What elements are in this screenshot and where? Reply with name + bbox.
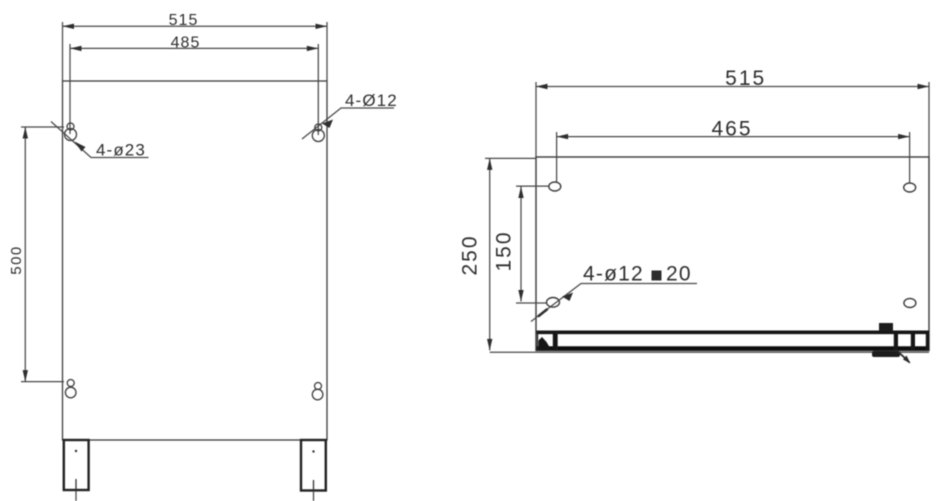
leader dark segment below hole [538, 309, 548, 317]
dimension 485 (left view) [70, 44, 318, 135]
dimension 515 (right view) [536, 82, 929, 157]
dimension 500 (left view, vertical) [21, 127, 64, 382]
rail bottom bar [537, 346, 930, 350]
hole top-left (right view) [549, 182, 561, 191]
rail right diagonal tick [898, 351, 910, 363]
arrowheads 250 [487, 158, 492, 170]
plate outline [536, 157, 929, 351]
hole top-right (right view) [904, 183, 916, 192]
arrowhead leader 4-o12 [322, 120, 333, 129]
rail right tick arrowhead [903, 356, 911, 364]
dimension 515 (left view) [63, 22, 328, 81]
leader 4-o23 [51, 122, 149, 158]
dimension 250 (right view, vertical) [485, 158, 929, 352]
rail left clip blob [539, 337, 551, 350]
svg-text:20: 20 [666, 263, 692, 286]
keyhole slot bottom-right [312, 383, 323, 400]
rail right end cap [926, 331, 929, 350]
leader 4-o12x20 [531, 284, 697, 322]
foot right [301, 440, 326, 491]
hole bottom-right (right view) [904, 299, 916, 308]
rail right divider 1 [894, 331, 898, 350]
dimension 150 (right view, vertical) [516, 186, 549, 303]
foot left [64, 440, 89, 490]
svg-text:515: 515 [725, 67, 766, 90]
leader 4-o12 [302, 108, 394, 139]
arrowhead leader 4-o23 [75, 142, 86, 152]
svg-text:515: 515 [169, 12, 199, 29]
svg-text:150: 150 [493, 230, 516, 271]
arrowhead leader 4-o12x20 [562, 293, 573, 302]
svg-text:4-ø23: 4-ø23 [96, 141, 146, 160]
rail right divider 2 [911, 331, 915, 350]
svg-text:250: 250 [459, 234, 482, 275]
foot centerline left [75, 491, 77, 501]
keyhole slot top-left [65, 123, 77, 141]
panel outline [63, 81, 328, 440]
rail right lower blob [872, 351, 900, 357]
arrowheads 500 [23, 127, 28, 139]
foot center marks right [312, 450, 314, 452]
svg-text:500: 500 [8, 245, 25, 275]
keyhole slot top-right [312, 124, 324, 142]
rail left clip box [538, 332, 558, 351]
svg-text:4-ø12: 4-ø12 [583, 263, 644, 286]
arrowheads 465 [557, 134, 569, 139]
foot center marks left [75, 450, 77, 452]
svg-text:465: 465 [711, 117, 752, 140]
rail left clip divider [553, 332, 557, 351]
keyhole slot bottom-left [65, 380, 76, 398]
svg-text:4-Ø12: 4-Ø12 [345, 91, 398, 110]
foot centerline right [313, 491, 315, 501]
arrowheads 485 [70, 46, 82, 51]
dimension 465 (right view) [557, 132, 910, 183]
arrowheads 515 left view [63, 24, 75, 29]
rail right bump on top [879, 323, 893, 331]
arrowheads 150 [518, 187, 523, 199]
svg-text:485: 485 [171, 35, 201, 52]
rail top bar (right view bottom) [537, 330, 930, 334]
arrowheads 515 right view [536, 84, 548, 89]
hole bottom-left (right view) [547, 298, 560, 308]
